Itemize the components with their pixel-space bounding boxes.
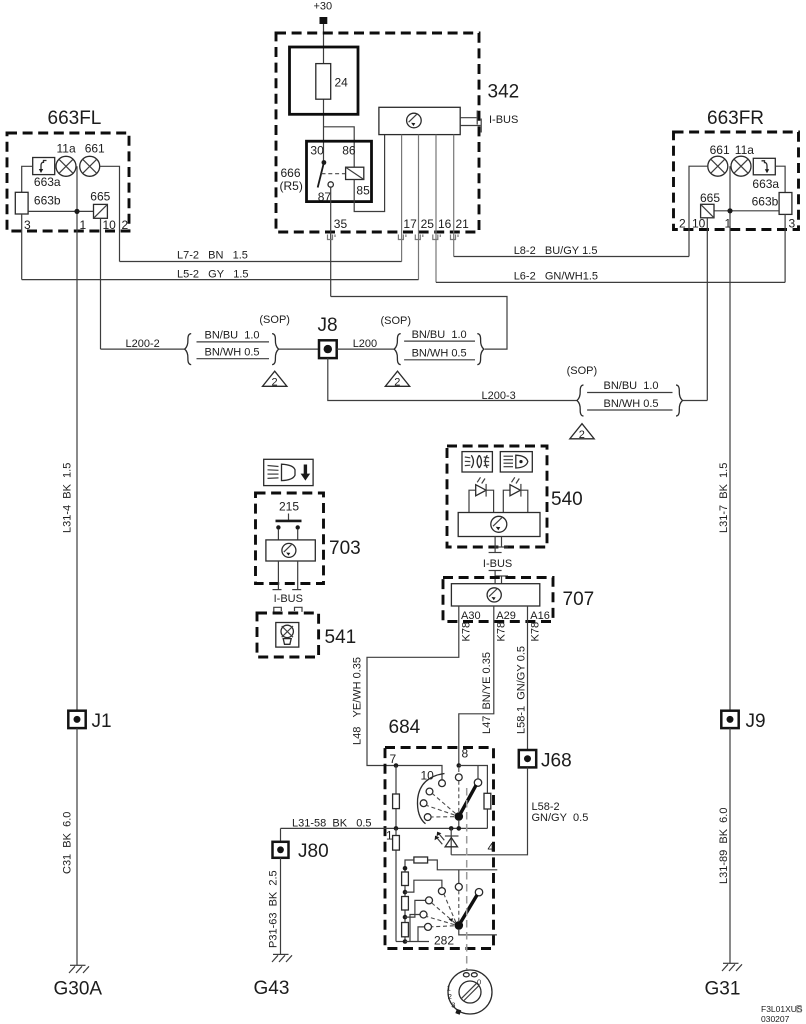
node ladder bc bbox=[403, 915, 408, 920]
svg-text:J80: J80 bbox=[298, 841, 329, 862]
lamp 661 FR bbox=[708, 156, 728, 176]
node rail LED bbox=[449, 826, 454, 831]
svg-text:2: 2 bbox=[272, 377, 278, 389]
wire J8 to group2 bbox=[337, 348, 395, 350]
connector J68 box bbox=[519, 750, 536, 767]
svg-text:L31-58 BK 0.5: L31-58 BK 0.5 bbox=[292, 817, 372, 829]
svg-text:(SOP): (SOP) bbox=[381, 315, 412, 327]
wire I-BUS upper stub bbox=[460, 117, 476, 119]
resistor RC bbox=[402, 923, 409, 937]
svg-text:2: 2 bbox=[394, 377, 400, 389]
mechanical dashed link bbox=[466, 788, 468, 970]
icon lamp 541 bbox=[281, 625, 293, 644]
side marker 663a box bbox=[33, 158, 55, 175]
wire +30 feed to relay pin 30 bbox=[323, 24, 325, 163]
LED headlamp wires bbox=[503, 490, 528, 512]
svg-text:85: 85 bbox=[356, 183, 370, 197]
contact deck1 center bbox=[455, 774, 462, 781]
ground G31 symbol bbox=[722, 963, 742, 971]
svg-text:24: 24 bbox=[335, 76, 349, 90]
wire U703 I-BUS right bbox=[297, 561, 299, 589]
svg-text:L31-4 BK 1.5: L31-4 BK 1.5 bbox=[62, 463, 74, 533]
svg-text:J1: J1 bbox=[92, 711, 112, 732]
triangle note 2 group3 bbox=[570, 424, 594, 441]
brace close group1 bbox=[272, 334, 279, 365]
svg-text:L7-2 BN 1.5: L7-2 BN 1.5 bbox=[177, 250, 248, 262]
wire switch to U703 left bbox=[277, 530, 279, 540]
wire deck2 pivot stub bbox=[459, 930, 497, 935]
svg-text:L48 YE/WH 0.35: L48 YE/WH 0.35 bbox=[352, 657, 364, 745]
LED fog wires bbox=[469, 490, 494, 512]
svg-text:35: 35 bbox=[334, 217, 348, 231]
svg-text:(R5): (R5) bbox=[280, 179, 303, 193]
wire U540 I-BUS b bbox=[501, 537, 503, 547]
svg-text:L31-89 BK 6.0: L31-89 BK 6.0 bbox=[718, 808, 730, 884]
svg-text:663b: 663b bbox=[752, 194, 779, 208]
diode 665 FR box bbox=[701, 204, 714, 218]
contact deck2 c1 bbox=[438, 888, 445, 895]
dashed ray deck2 to c4 bbox=[432, 926, 454, 927]
wire L31-89 right vertical lower bbox=[729, 728, 731, 963]
relay contact 87 circle bbox=[328, 182, 333, 187]
wire pin8 to resistor R8 bbox=[459, 766, 488, 794]
svg-text:2: 2 bbox=[579, 429, 585, 441]
connector J80 node bbox=[277, 846, 284, 853]
wire U703 I-BUS left bbox=[277, 561, 279, 589]
svg-text:(SOP): (SOP) bbox=[567, 365, 598, 377]
connector J8 node bbox=[324, 345, 332, 353]
contact deck1 c4 bbox=[424, 814, 431, 821]
box 707 dashed enclosure bbox=[443, 578, 553, 622]
brace close group2 bbox=[477, 334, 484, 365]
svg-text:25: 25 bbox=[421, 217, 435, 231]
svg-text:703: 703 bbox=[329, 538, 361, 559]
svg-text:663FL: 663FL bbox=[48, 108, 102, 129]
wire C31 left vertical lower bbox=[76, 728, 78, 965]
contact deck1 c3 bbox=[420, 800, 427, 807]
lamp 11a bbox=[56, 156, 76, 176]
node +30 terminal square bbox=[320, 17, 328, 24]
wiper deck1 pivot bbox=[455, 812, 464, 821]
box 663FL dashed enclosure bbox=[7, 133, 129, 231]
resistor ladder wire bbox=[404, 868, 406, 941]
svg-text:3: 3 bbox=[24, 218, 31, 232]
I-BUS bar 703 right bbox=[292, 589, 301, 591]
wire pin 35 to SOP group bbox=[331, 297, 507, 350]
wire lamp 661 FR to pin 2 bbox=[689, 166, 708, 256]
svg-text:G43: G43 bbox=[254, 978, 290, 999]
relay coil diagonal bbox=[346, 167, 364, 179]
fuse holder box bbox=[290, 47, 359, 114]
connector J68 node bbox=[524, 755, 531, 762]
node pin7 junction bbox=[394, 763, 399, 768]
wire coil pin 85 to control unit bbox=[354, 135, 384, 212]
svg-text:L200: L200 bbox=[353, 338, 377, 350]
wire A30 L48 to pin 7 bbox=[367, 606, 459, 780]
relay coil box bbox=[346, 167, 364, 179]
wire 663b FR to 665 FR bbox=[714, 210, 779, 212]
svg-text:A30: A30 bbox=[461, 610, 481, 622]
wire lamp 661 to pin 2 bbox=[100, 166, 120, 261]
svg-text:L200-3: L200-3 bbox=[482, 390, 516, 402]
svg-text:030207: 030207 bbox=[761, 1014, 790, 1024]
svg-text:663a: 663a bbox=[34, 175, 61, 189]
relay 666 box bbox=[307, 141, 372, 201]
svg-text:8: 8 bbox=[462, 747, 469, 761]
svg-text:661: 661 bbox=[85, 141, 105, 155]
wire BN/WH 0.5 group1 bbox=[197, 358, 270, 360]
box 703 dashed enclosure bbox=[256, 493, 324, 584]
connector J1 box bbox=[68, 711, 85, 728]
svg-text:3: 3 bbox=[451, 1001, 455, 1010]
connector J8 box bbox=[319, 340, 337, 358]
switch 215 symbol bbox=[276, 514, 302, 530]
wire P31-63 to ground bbox=[280, 858, 282, 955]
connector J9 box bbox=[721, 711, 738, 728]
I-BUS bar 707 b bbox=[495, 575, 508, 577]
connector mark pin 25 bbox=[415, 235, 423, 240]
svg-text:1: 1 bbox=[725, 217, 732, 231]
wire L58-2 to pin 4 bbox=[451, 767, 527, 854]
resistor RA bbox=[402, 872, 409, 886]
wire pin 25 bbox=[418, 135, 420, 280]
wire BN/BU 1.0 group2 bbox=[404, 340, 475, 342]
node ladder top bbox=[403, 866, 408, 871]
wire L200-2 bbox=[101, 348, 186, 350]
wire 707 I-BUS b bbox=[501, 576, 503, 584]
svg-text:10: 10 bbox=[103, 218, 117, 232]
contact deck2 c3 bbox=[420, 911, 427, 918]
icon box headlamp bbox=[500, 452, 532, 472]
icon 663a FR arrow bbox=[762, 161, 770, 174]
wire BN/BU 1.0 group1 bbox=[197, 341, 270, 343]
svg-text:665: 665 bbox=[90, 190, 110, 204]
svg-text:342: 342 bbox=[488, 82, 520, 103]
switch deck1 fan arc bbox=[417, 774, 444, 824]
wiper deck1 arm bbox=[459, 785, 476, 817]
wire BN/BU 1.0 group3 bbox=[587, 392, 672, 394]
connector mark pin 17 bbox=[398, 235, 406, 240]
svg-text:30: 30 bbox=[310, 143, 324, 157]
icon control-unit steering wheel U540 bbox=[491, 516, 507, 532]
wire L7-2 bbox=[120, 261, 402, 263]
control unit U703 bbox=[266, 540, 315, 561]
relay switch pivot node bbox=[322, 160, 327, 165]
svg-text:16: 16 bbox=[438, 217, 452, 231]
I-BUS bar 707 a bbox=[489, 570, 502, 572]
wire R1 to ladder bottom bbox=[396, 941, 405, 943]
box 663FR dashed enclosure bbox=[674, 132, 799, 230]
LED fog diode bbox=[476, 477, 486, 496]
connector hook 541 left bbox=[274, 607, 282, 612]
brace open group3 bbox=[577, 385, 584, 416]
wiper deck2 arm bbox=[459, 895, 477, 926]
wire pin 17 bbox=[401, 135, 403, 262]
svg-text:21: 21 bbox=[456, 217, 470, 231]
dashed link center contact bbox=[458, 768, 460, 774]
wire rail L31-58 bbox=[281, 827, 488, 829]
wire 665 to pin 10 bbox=[100, 218, 102, 349]
resistor R1 wire bbox=[395, 828, 397, 941]
dashed ray deck1 to c2 bbox=[433, 794, 456, 814]
contact deck1 c2 bbox=[426, 788, 433, 795]
I-BUS bar 703 left bbox=[273, 589, 282, 591]
LED headlamp diode bbox=[510, 477, 521, 496]
svg-text:I-BUS: I-BUS bbox=[489, 114, 518, 126]
I-BUS bar lower bbox=[480, 119, 482, 133]
svg-text:L31-7 BK 1.5: L31-7 BK 1.5 bbox=[718, 463, 730, 533]
icon control-unit steering wheel U703 bbox=[282, 543, 296, 557]
wire L5-2 bbox=[22, 279, 419, 281]
box 541 dashed enclosure bbox=[257, 613, 319, 657]
wire 665 FR to pin 10 bbox=[706, 218, 708, 401]
svg-text:G31: G31 bbox=[705, 979, 741, 1000]
resistor RT top bbox=[414, 857, 428, 863]
wire J8 to L200-3 row bbox=[328, 358, 577, 400]
svg-text:2: 2 bbox=[679, 217, 686, 231]
svg-text:86: 86 bbox=[342, 143, 356, 157]
contact deck2 arm tip bbox=[475, 889, 482, 896]
dashed ray deck2 to c2 bbox=[432, 903, 456, 923]
arrow deck2 adjust bbox=[449, 918, 454, 922]
fuse 24 bbox=[316, 64, 331, 100]
side marker 663a FR box bbox=[753, 158, 775, 175]
wire J80 riser bbox=[280, 828, 282, 841]
wire L8-2 bbox=[454, 256, 689, 258]
wire center contact deck2 stub bbox=[458, 870, 460, 884]
wire deck1 pivot to rail bbox=[458, 821, 460, 829]
icon headlamp symbol bbox=[504, 455, 528, 468]
icon headlamp leveling symbol bbox=[268, 464, 311, 480]
svg-text:87: 87 bbox=[318, 190, 332, 204]
svg-text:BN/WH 0.5: BN/WH 0.5 bbox=[205, 346, 260, 358]
wire 663a to 663b bbox=[22, 166, 33, 192]
dashed ray deck1 to c3 bbox=[427, 806, 455, 816]
icon box front fog bbox=[462, 452, 492, 472]
svg-text:P31-63 BK 2.5: P31-63 BK 2.5 bbox=[268, 870, 280, 948]
connector hook 541 right bbox=[295, 607, 303, 612]
svg-text:GN/GY 0.5: GN/GY 0.5 bbox=[532, 812, 589, 824]
resistor 663b bbox=[15, 192, 28, 214]
svg-text:K78: K78 bbox=[495, 622, 507, 642]
contact deck1 c1 bbox=[439, 780, 446, 787]
wire lamps FR to pin 1 bbox=[729, 166, 731, 229]
svg-text:J8: J8 bbox=[318, 315, 338, 336]
lamp 661 bbox=[80, 156, 100, 176]
contact deck1 arm tip bbox=[474, 779, 481, 786]
rotary knob 282 symbol bbox=[447, 970, 492, 1015]
svg-text:11a: 11a bbox=[735, 143, 754, 157]
svg-text:K78: K78 bbox=[460, 622, 472, 642]
diode 665 FR diagonal bbox=[701, 204, 714, 218]
svg-text:BN/BU 1.0: BN/BU 1.0 bbox=[412, 329, 467, 341]
connector mark pin 35 bbox=[328, 235, 336, 240]
junction node pin1 bbox=[74, 209, 79, 214]
brace open group1 bbox=[185, 334, 192, 365]
icon control-unit steering wheel U342 bbox=[407, 113, 422, 128]
dashed link deck2 center bbox=[458, 890, 460, 921]
svg-text:I-BUS: I-BUS bbox=[483, 558, 512, 570]
svg-text:0: 0 bbox=[477, 978, 481, 987]
svg-text:17: 17 bbox=[403, 217, 417, 231]
wire 663b FR to pin 3 bbox=[784, 214, 786, 282]
svg-text:+30: +30 bbox=[314, 1, 333, 13]
wire 663a FR to 663b FR bbox=[775, 166, 785, 192]
box 684 dashed enclosure bbox=[385, 748, 494, 949]
svg-text:L8-2 BU/GY 1.5: L8-2 BU/GY 1.5 bbox=[514, 245, 598, 257]
brace close group3 bbox=[676, 385, 683, 416]
icon control-unit steering wheel U707 bbox=[487, 588, 501, 602]
wire tap c2 deck2 bbox=[405, 900, 426, 917]
wire ladder bottom rail bbox=[405, 941, 429, 943]
relay switch arm bbox=[318, 163, 324, 188]
box 342 dashed enclosure bbox=[276, 33, 479, 232]
svg-text:282: 282 bbox=[434, 934, 454, 948]
junction node pin1 FR bbox=[727, 208, 732, 213]
resistor 663b FR bbox=[779, 193, 792, 215]
node pin8 junction bbox=[457, 763, 462, 768]
resistor R8 bbox=[484, 793, 491, 809]
wiper deck2 pivot bbox=[455, 921, 464, 930]
svg-text:1: 1 bbox=[80, 218, 87, 232]
connector J80 box bbox=[273, 842, 289, 858]
svg-text:663a: 663a bbox=[752, 177, 779, 191]
wire RT left leg bbox=[405, 860, 414, 868]
svg-text:BN/BU 1.0: BN/BU 1.0 bbox=[205, 329, 260, 341]
svg-text:L58-1 GN/GY 0.5: L58-1 GN/GY 0.5 bbox=[515, 646, 527, 734]
svg-text:665: 665 bbox=[700, 191, 720, 205]
wire group1 to J8 bbox=[279, 348, 319, 350]
I-BUS bar 540 a bbox=[489, 552, 502, 554]
wire 663b to 665 bbox=[28, 210, 93, 212]
contact deck2 center bbox=[455, 883, 462, 890]
svg-text:215: 215 bbox=[279, 500, 299, 514]
diode 665 diagonal bbox=[94, 204, 108, 218]
connector J9 node bbox=[727, 716, 734, 723]
wire group3 to 663FR pin10 bbox=[683, 400, 707, 402]
wire 663b to pin 3 bbox=[21, 214, 23, 280]
wire L31-7 right vertical upper bbox=[729, 230, 731, 711]
wire arm tip stub bbox=[477, 766, 479, 779]
wire pin 16 bbox=[435, 135, 437, 283]
resistor R1 bbox=[393, 836, 400, 851]
svg-text:L200-2: L200-2 bbox=[126, 338, 160, 350]
node rail wiper bbox=[457, 826, 462, 831]
wire A16 L58-1 to J68 bbox=[527, 606, 529, 750]
I-BUS bar 540 b bbox=[495, 546, 508, 548]
triangle note 2 group2 bbox=[385, 371, 409, 388]
svg-text:L6-2 GN/WH1.5: L6-2 GN/WH1.5 bbox=[514, 271, 598, 283]
svg-text:684: 684 bbox=[389, 717, 421, 738]
wire A29 L47 to pin 8 bbox=[459, 606, 494, 766]
wire fuse to relay coil pin 86 bbox=[324, 127, 355, 167]
svg-text:BN/BU 1.0: BN/BU 1.0 bbox=[604, 380, 659, 392]
resistor RB bbox=[402, 897, 409, 911]
dashed ray deck2 to c1 bbox=[444, 894, 456, 922]
ground G43 symbol bbox=[272, 954, 292, 962]
connector J1 node bbox=[74, 716, 81, 723]
svg-text:C31 BK 6.0: C31 BK 6.0 bbox=[62, 812, 74, 874]
svg-text:L47 BN/YE 0.35: L47 BN/YE 0.35 bbox=[481, 652, 493, 734]
svg-text:541: 541 bbox=[325, 627, 357, 648]
resistor R7 wire bbox=[395, 766, 397, 829]
svg-text:540: 540 bbox=[551, 489, 583, 510]
svg-text:663b: 663b bbox=[34, 193, 61, 207]
wire tap c1 deck2 bbox=[405, 880, 442, 892]
wire pin 21 bbox=[453, 135, 455, 257]
icon 663a arrow bbox=[39, 161, 47, 174]
wire L6-2 bbox=[436, 281, 785, 283]
wire switch to U703 right bbox=[297, 530, 299, 540]
wire pin 87 to pin 35 bbox=[330, 187, 332, 296]
svg-text:663FR: 663FR bbox=[707, 108, 764, 129]
contact deck2 c2 bbox=[426, 897, 433, 904]
wire BN/WH 0.5 group3 bbox=[587, 409, 672, 411]
icon box headlamp leveling bbox=[264, 459, 313, 485]
triangle note 2 group1 bbox=[263, 371, 287, 388]
dashed ray deck2 to c3 bbox=[427, 917, 455, 925]
node ladder bottom bbox=[403, 939, 408, 944]
icon front fog symbol bbox=[465, 455, 489, 468]
connector mark pin 16 bbox=[433, 235, 441, 240]
node ladder ab bbox=[403, 890, 408, 895]
wire RT right leg stub bbox=[428, 860, 498, 870]
wire BN/WH 0.5 group2 bbox=[404, 359, 475, 361]
svg-text:BN/WH 0.5: BN/WH 0.5 bbox=[604, 398, 659, 410]
wire L31-4 left vertical upper bbox=[76, 231, 78, 711]
svg-text:661: 661 bbox=[710, 143, 730, 157]
svg-text:BN/WH 0.5: BN/WH 0.5 bbox=[412, 347, 467, 359]
wire lamps to pin 1 bbox=[76, 166, 78, 231]
svg-text:A29: A29 bbox=[496, 610, 516, 622]
svg-text:L5-2 GY 1.5: L5-2 GY 1.5 bbox=[177, 269, 249, 281]
svg-text:J68: J68 bbox=[541, 751, 572, 772]
LED D684 symbol bbox=[435, 828, 459, 854]
I-BUS bar upper bbox=[476, 111, 478, 125]
brace open group2 bbox=[394, 334, 401, 365]
svg-text:2: 2 bbox=[122, 218, 129, 232]
svg-text:J9: J9 bbox=[746, 711, 766, 732]
wire tap c3 deck2 bbox=[410, 915, 420, 942]
svg-text:707: 707 bbox=[563, 589, 595, 610]
relay actuation dashed link bbox=[322, 173, 346, 175]
svg-text:K78: K78 bbox=[529, 622, 541, 642]
svg-text:A16: A16 bbox=[530, 610, 550, 622]
display unit 541 box bbox=[276, 623, 299, 648]
svg-text:4: 4 bbox=[488, 841, 495, 855]
wire 707 I-BUS a bbox=[494, 571, 496, 584]
resistor R8 wire bbox=[486, 793, 488, 828]
svg-text:666: 666 bbox=[281, 166, 301, 180]
dashed ray deck1 to c4 bbox=[431, 816, 454, 818]
box 540 dashed enclosure bbox=[447, 446, 547, 547]
svg-text:3: 3 bbox=[789, 217, 796, 231]
contact deck2 c4 bbox=[425, 923, 432, 930]
resistor R7 pin7 bbox=[393, 794, 400, 809]
svg-text:(SOP): (SOP) bbox=[259, 314, 290, 326]
diode 665 box bbox=[94, 204, 108, 218]
svg-text:G30A: G30A bbox=[54, 979, 103, 1000]
wire I-BUS lower stub bbox=[460, 125, 480, 127]
control unit U540 bbox=[458, 513, 540, 537]
control unit U342 bbox=[379, 107, 460, 134]
svg-text:I-BUS: I-BUS bbox=[274, 593, 303, 605]
node rail R7 bbox=[394, 826, 399, 831]
wire U540 I-BUS a bbox=[494, 537, 496, 553]
svg-text:11a: 11a bbox=[57, 141, 76, 155]
connector mark pin 21 bbox=[451, 235, 459, 240]
control unit U707 bbox=[451, 584, 539, 606]
